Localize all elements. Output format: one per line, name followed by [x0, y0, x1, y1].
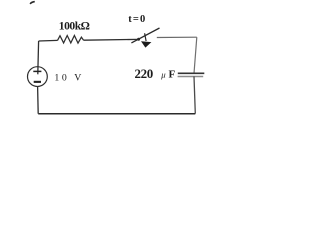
switch actuation arrowhead [141, 41, 151, 47]
wire (switch right contact to top-right corner) [157, 36, 197, 38]
wire (resistor to switch left contact) [84, 38, 139, 41]
switch blade [131, 28, 159, 43]
wire (left vertical, top corner down to source top / plus lead) [37, 41, 40, 74]
svg-text:100kΩ: 100kΩ [59, 20, 90, 33]
voltage source plus bar [33, 70, 41, 72]
svg-text:10 V: 10 V [54, 73, 84, 84]
switch S1 (closes at t=0): pivot dot [137, 38, 140, 41]
wire (capacitor bottom lead down to bottom-right corner) [194, 76, 195, 113]
resistor R1 zigzag [58, 36, 84, 44]
wire (source bottom lead down to bottom-left corner) [37, 87, 40, 114]
svg-text:F: F [169, 68, 176, 80]
svg-text:μ: μ [160, 70, 166, 80]
wire (right vertical, corner down to capacitor top plate) [194, 37, 197, 73]
voltage source V1 circle [28, 67, 48, 87]
svg-text:220: 220 [135, 66, 153, 81]
voltage source minus bar [34, 81, 41, 83]
svg-text:t=0: t=0 [128, 14, 146, 25]
capacitor C1 top plate [178, 72, 205, 74]
wire (top-left: left corner to resistor) [39, 39, 58, 42]
switch actuation arrow stem [145, 33, 147, 41]
stray text fragment (cropped glyph at top edge) [30, 1, 36, 5]
wire (bottom: right corner to left corner) [38, 113, 195, 115]
capacitor C1 bottom plate [178, 76, 204, 78]
